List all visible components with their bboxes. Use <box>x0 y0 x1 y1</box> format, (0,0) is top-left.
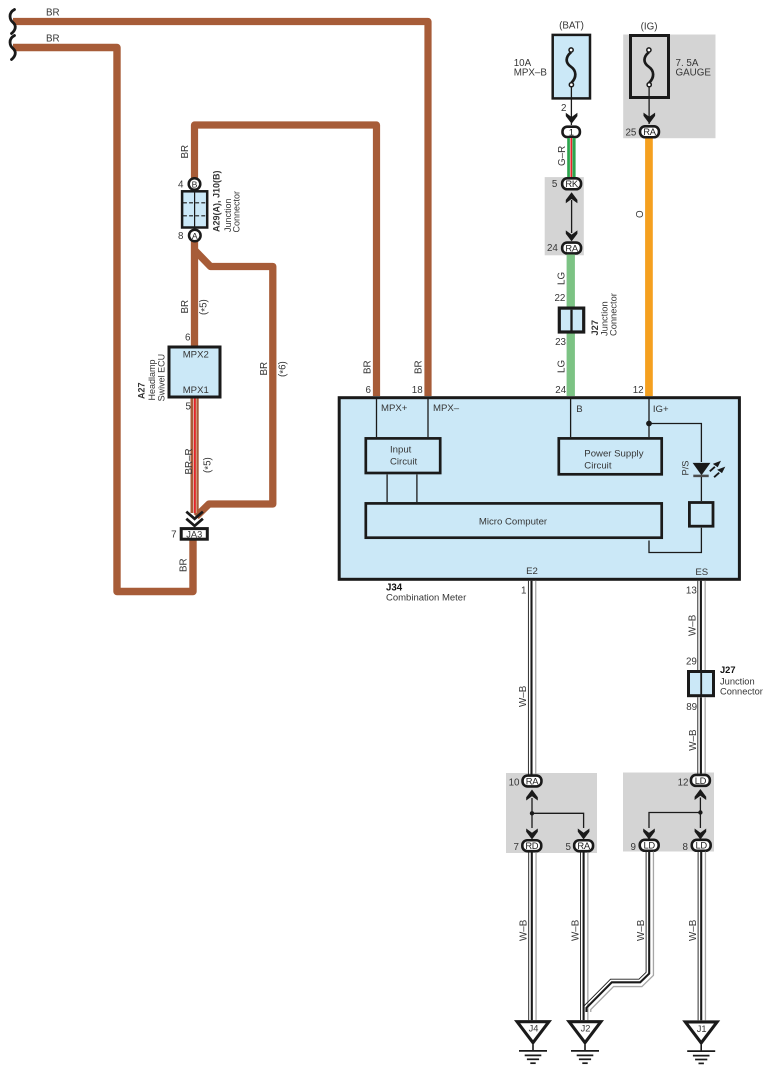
svg-text:2: 2 <box>561 103 566 114</box>
pin 22 <box>554 293 565 304</box>
svg-text:W–B: W–B <box>688 729 699 751</box>
svg-text:B: B <box>192 179 198 189</box>
arrowhead down into RA 24 <box>566 230 578 241</box>
pin 12 <box>678 778 689 789</box>
pin 18 of J34 <box>412 385 423 396</box>
label (IG) <box>641 22 658 33</box>
wire W-B from J27 to LD 12 <box>698 697 705 774</box>
pin 10 <box>509 778 520 789</box>
svg-text:7: 7 <box>514 842 519 853</box>
arrowhead into node 1 <box>566 113 578 124</box>
gray background of IG fuse block <box>623 35 715 139</box>
wire W-B from RD 7 to ground J4 <box>529 852 536 1020</box>
connector LD 8 oval <box>692 840 711 851</box>
label LG upper <box>556 272 567 285</box>
terminal A circle <box>189 230 201 242</box>
svg-text:P/S: P/S <box>681 461 691 476</box>
combination meter J34 box <box>339 398 739 580</box>
pin 1 below E2 <box>521 586 526 597</box>
terminal label IG+ <box>653 404 669 415</box>
svg-text:29: 29 <box>686 657 697 668</box>
svg-text:89: 89 <box>686 702 697 713</box>
svg-text:Input: Input <box>390 444 412 455</box>
svg-text:BR: BR <box>414 360 425 374</box>
svg-text:W–B: W–B <box>636 919 647 941</box>
wire W-B from ES to J27 <box>698 581 705 670</box>
svg-text:BR: BR <box>46 33 60 44</box>
wire RA10 to junction node <box>531 798 533 813</box>
label MPX2 <box>183 350 209 361</box>
label W-B on J4 wire <box>519 919 530 941</box>
svg-text:7: 7 <box>171 530 176 541</box>
svg-text:(*5): (*5) <box>199 299 211 315</box>
svg-text:6: 6 <box>366 385 372 396</box>
label Power Supply Circuit <box>584 448 643 471</box>
svg-text:LD: LD <box>644 840 656 851</box>
svg-text:Combination Meter: Combination Meter <box>386 593 466 604</box>
pin 25 <box>625 128 636 139</box>
svg-text:MPX+: MPX+ <box>381 403 408 414</box>
svg-text:5: 5 <box>565 842 571 853</box>
ground J4 <box>517 1022 549 1063</box>
terminal label MPX+ <box>381 403 408 414</box>
svg-text:Connector: Connector <box>231 191 241 233</box>
wire LD12 to junction node <box>699 798 701 813</box>
svg-text:A29(A), J10(B): A29(A), J10(B) <box>211 170 221 232</box>
LED P/S symbol <box>693 461 726 478</box>
arrowhead up below LD 12 <box>695 789 707 800</box>
pin 24 of RA <box>547 243 558 254</box>
svg-text:J2: J2 <box>581 1024 591 1034</box>
wire node to RA 5 branch <box>532 813 584 828</box>
svg-text:5: 5 <box>185 402 191 413</box>
svg-text:J4: J4 <box>529 1024 539 1034</box>
pin 4 of junction connector B <box>178 179 184 190</box>
gray background of RK/RA connector pair <box>545 177 584 255</box>
label BR below A <box>180 300 191 314</box>
label (BAT) <box>559 21 584 32</box>
svg-text:LG: LG <box>556 272 567 285</box>
resistor box in J34 <box>689 503 713 527</box>
pin 12 of J34 <box>633 385 644 396</box>
svg-text:BR: BR <box>259 362 270 376</box>
svg-text:ES: ES <box>695 567 708 578</box>
svg-text:RA: RA <box>565 242 578 253</box>
wire W-B from LD 9 joining J2 wire <box>583 852 653 1012</box>
label W-B on E2 wire <box>518 685 529 707</box>
svg-text:BR–R: BR–R <box>184 448 195 474</box>
svg-text:RD: RD <box>525 840 538 851</box>
terminal label B <box>576 404 582 415</box>
svg-text:MPX2: MPX2 <box>183 350 209 361</box>
connector RA 5 oval <box>574 840 593 851</box>
terminal label ES <box>695 567 708 578</box>
wire LG from RA 24 to J34 pin B <box>567 255 575 397</box>
connector LD 9 oval <box>640 840 659 851</box>
svg-text:LD: LD <box>695 775 707 786</box>
label 10A MPX-B <box>514 58 548 79</box>
wire BR from junction connector B up/over to MPX+ pin 6 of J34 <box>195 125 377 396</box>
svg-text:8: 8 <box>178 231 184 242</box>
svg-text:6: 6 <box>185 332 191 343</box>
pin 5 of A27 <box>185 402 191 413</box>
arrowhead into LD 8 <box>695 829 707 840</box>
svg-text:E2: E2 <box>526 566 538 577</box>
terminal B circle <box>189 178 201 190</box>
svg-text:12: 12 <box>678 778 689 789</box>
label J27 junction connector (22/23) <box>590 293 619 336</box>
label LG lower <box>556 360 567 373</box>
arrowhead into RD 7 <box>526 829 538 840</box>
label Micro Computer <box>479 517 548 528</box>
connector RD 7 oval <box>522 840 541 851</box>
svg-text:9: 9 <box>631 842 636 853</box>
label O <box>635 210 646 218</box>
wire LED to resistor box <box>700 477 702 501</box>
pin 5 <box>565 842 571 853</box>
label BR second wire <box>46 33 60 44</box>
label W-B on ES wire <box>688 614 699 636</box>
svg-text:LG: LG <box>556 360 567 373</box>
svg-text:RA: RA <box>643 126 656 137</box>
gray background of LD relay block <box>623 773 714 852</box>
connector RK oval <box>562 178 581 189</box>
wire BR from junction connector A down to A27 MPX2 pin 6 <box>191 240 198 347</box>
svg-text:O: O <box>635 210 646 218</box>
svg-text:BR: BR <box>180 300 191 314</box>
wire W-B from RA 5 to ground J2 <box>581 852 588 1020</box>
label P/S <box>681 461 691 476</box>
label G-R <box>557 146 568 166</box>
svg-text:RA: RA <box>526 775 539 786</box>
wire micro computer to resistor box <box>649 528 701 553</box>
gray background of RA/RD/RA relay block <box>506 773 597 853</box>
svg-text:G–R: G–R <box>557 146 568 166</box>
double arrowhead into JA3 <box>186 512 203 526</box>
svg-text:4: 4 <box>178 179 184 190</box>
pin 29 <box>686 657 697 668</box>
svg-text:BR: BR <box>363 360 374 374</box>
connector RA 25 oval <box>640 126 659 137</box>
pin 7 of JA3 <box>171 530 176 541</box>
svg-text:24: 24 <box>547 243 558 254</box>
svg-text:IG+: IG+ <box>653 404 669 415</box>
label J27 Junction Connector (29/89) <box>720 665 763 696</box>
label MPX1 <box>183 385 209 396</box>
label W-B below J27 <box>688 729 699 751</box>
svg-text:MPX1: MPX1 <box>183 385 209 396</box>
svg-text:Connector: Connector <box>609 293 619 336</box>
wire BR second from top-left down and around to JA3 <box>13 48 193 592</box>
pin 6 of J34 <box>366 385 372 396</box>
wire input circuit to micro computer (right) <box>416 475 418 503</box>
power supply circuit box <box>559 438 662 474</box>
svg-text:13: 13 <box>686 586 697 597</box>
svg-text:10: 10 <box>509 778 520 789</box>
break symbol top wire <box>10 10 15 34</box>
pin 23 <box>555 337 566 348</box>
svg-text:18: 18 <box>412 385 423 396</box>
wire BR from top-left (node to MPX- pin 18 of J34) <box>13 22 428 397</box>
arrowhead into RA 5 <box>578 829 590 840</box>
svg-text:BR: BR <box>46 7 60 18</box>
break symbol second wire <box>10 36 15 60</box>
arrowhead up below RA 10 <box>526 790 538 801</box>
arrowhead into RA 25 <box>644 113 656 124</box>
svg-text:MPX–B: MPX–B <box>514 68 548 79</box>
node 1 oval <box>563 127 580 139</box>
arrowhead into LD 9 <box>643 829 655 840</box>
ground J1 <box>685 1022 717 1064</box>
label (*5) upper <box>199 299 211 315</box>
junction connector J27 (22/23) <box>559 308 583 332</box>
ground J2 <box>569 1022 601 1063</box>
connector LD 12 oval <box>691 775 710 786</box>
svg-text:Junction: Junction <box>720 676 755 686</box>
label W-B on J2 wire <box>570 919 581 941</box>
label (*6) <box>277 361 289 377</box>
svg-text:1: 1 <box>521 586 526 597</box>
svg-text:Connector: Connector <box>720 686 763 696</box>
wire node down to LD 8 <box>699 813 701 829</box>
terminal label MPX- <box>433 403 460 414</box>
label A27 Headlamp Swivel ECU <box>137 354 167 402</box>
svg-text:12: 12 <box>633 385 644 396</box>
svg-text:W–B: W–B <box>688 614 699 636</box>
pin 13 below ES <box>686 586 697 597</box>
input circuit box <box>366 438 440 473</box>
terminal line MPX- <box>427 397 429 437</box>
pin 8 of junction connector A <box>178 231 184 242</box>
svg-text:B: B <box>576 404 582 415</box>
pin 8 <box>682 842 688 853</box>
fuse 10A MPX-B (BAT) <box>553 35 590 99</box>
label BR at pin 6 wire <box>363 360 374 374</box>
svg-text:22: 22 <box>554 293 565 304</box>
svg-text:W–B: W–B <box>570 919 581 941</box>
junction JA3 box <box>181 529 207 540</box>
pin 24 of J34 <box>555 385 566 396</box>
label 7.5A GAUGE <box>676 58 712 79</box>
wire node to LD 9 branch <box>649 813 700 829</box>
svg-text:8: 8 <box>682 842 688 853</box>
wire input circuit to micro computer (left) <box>386 475 388 503</box>
junction connector A29/J10 box <box>182 191 207 227</box>
arrowhead up at RK <box>566 192 578 203</box>
svg-text:(*5): (*5) <box>202 457 214 473</box>
svg-text:1: 1 <box>569 127 574 138</box>
svg-text:23: 23 <box>555 337 566 348</box>
svg-text:A: A <box>192 231 198 241</box>
junction node in relay block 2 <box>698 810 702 814</box>
svg-text:W–B: W–B <box>688 919 699 941</box>
svg-text:J1: J1 <box>697 1024 707 1034</box>
svg-text:RA: RA <box>577 840 590 851</box>
svg-text:(IG): (IG) <box>641 22 658 33</box>
svg-text:Power Supply: Power Supply <box>584 448 643 459</box>
pin 89 <box>686 702 697 713</box>
junction node in relay block 1 <box>530 811 534 815</box>
terminal line IG+ <box>648 397 650 437</box>
connector RA 10 oval <box>523 775 542 786</box>
micro computer box <box>366 503 662 537</box>
svg-text:Micro Computer: Micro Computer <box>479 517 548 528</box>
label Input Circuit <box>390 444 418 467</box>
label BR at pin 18 wire <box>414 360 425 374</box>
wire O from RA 25 to J34 pin 12 <box>645 139 653 397</box>
svg-text:W–B: W–B <box>519 919 530 941</box>
svg-text:J27: J27 <box>720 665 736 675</box>
svg-text:(BAT): (BAT) <box>559 21 584 32</box>
wire G-R from node 1 to RK <box>567 138 575 178</box>
label W-B on J1 wire <box>688 919 699 941</box>
wire from IG+ node to LED <box>649 424 701 463</box>
svg-text:25: 25 <box>625 128 636 139</box>
svg-text:Swivel ECU: Swivel ECU <box>156 354 166 402</box>
terminal label E2 <box>526 566 538 577</box>
svg-text:(*6): (*6) <box>277 361 289 377</box>
svg-text:JA3: JA3 <box>186 529 202 539</box>
headlamp swivel ECU A27 box <box>169 347 220 397</box>
svg-text:A27: A27 <box>137 382 147 399</box>
pin 2 of BAT fuse <box>561 103 566 114</box>
svg-text:RK: RK <box>565 178 578 189</box>
wire BR-R from A27 MPX1 pin 5 down to JA3 arrow <box>191 399 199 514</box>
pin 6 of A27 <box>185 332 191 343</box>
wire node down to RD 7 <box>531 813 533 828</box>
wire W-B from LD 8 to ground J1 <box>698 852 705 1021</box>
label BR top wire <box>46 7 60 18</box>
wire from BAT fuse to node 1 <box>570 87 572 126</box>
connector RA 24 oval <box>562 242 581 253</box>
label BR above B <box>180 145 191 159</box>
svg-text:LD: LD <box>696 840 708 851</box>
label J34 Combination Meter <box>386 582 466 603</box>
label A29(A), J10(B) Junction Connector <box>211 170 241 232</box>
pin 5 of RK <box>552 179 558 190</box>
wire from IG fuse to pin 25 <box>648 87 650 125</box>
label (*5) lower <box>202 457 214 473</box>
fuse 7.5A GAUGE (IG) <box>631 36 669 98</box>
wire between RK and RA 24 <box>571 200 573 233</box>
pin 7 <box>514 842 519 853</box>
terminal line MPX+ <box>376 397 378 437</box>
junction connector J27 (29/89) <box>689 672 714 696</box>
svg-text:Circuit: Circuit <box>390 456 418 467</box>
svg-text:GAUGE: GAUGE <box>676 68 712 79</box>
svg-text:BR: BR <box>180 145 191 159</box>
svg-text:W–B: W–B <box>518 685 529 707</box>
label BR at branch wire <box>259 362 270 376</box>
svg-text:MPX–: MPX– <box>433 403 460 414</box>
label BR-R <box>184 448 195 474</box>
wire BR (*6) branch from A down around to JA3 arrow <box>195 250 273 517</box>
svg-text:24: 24 <box>555 385 566 396</box>
svg-text:Circuit: Circuit <box>584 460 612 471</box>
pin 9 <box>631 842 636 853</box>
terminal line B <box>570 397 572 437</box>
svg-text:5: 5 <box>552 179 558 190</box>
node on IG+ line <box>646 421 652 427</box>
label W-B on LD 9 wire <box>636 919 647 941</box>
label BR below JA3 <box>179 558 190 572</box>
svg-text:BR: BR <box>179 558 190 572</box>
wire W-B from E2 to RA 10 <box>528 581 535 775</box>
